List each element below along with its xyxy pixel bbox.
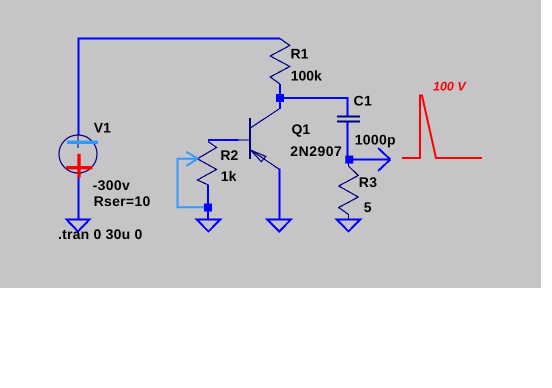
svg-text:C1: C1 [354,93,373,109]
svg-text:.tran 0 30u 0: .tran 0 30u 0 [58,226,143,242]
svg-text:5: 5 [364,199,372,215]
svg-text:-300v: -300v [93,177,131,193]
svg-text:100 V: 100 V [433,80,467,94]
svg-text:V1: V1 [94,120,111,136]
svg-text:2N2907: 2N2907 [290,143,342,159]
svg-text:1000p: 1000p [355,132,396,148]
svg-text:Q1: Q1 [292,121,311,137]
svg-text:R2: R2 [220,147,238,163]
svg-text:R1: R1 [291,46,309,62]
svg-text:1k: 1k [221,168,237,184]
svg-text:Rser=10: Rser=10 [94,193,151,209]
svg-text:R3: R3 [359,174,378,190]
svg-text:100k: 100k [291,67,322,83]
